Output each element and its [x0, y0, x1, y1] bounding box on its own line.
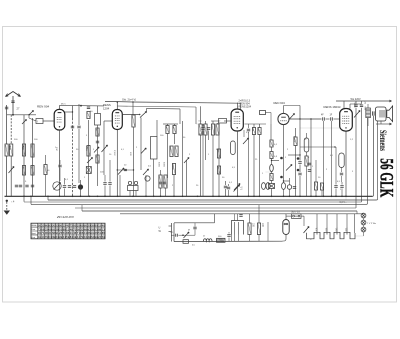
wire antenna to switch — [7, 114, 36, 116]
svg-text:5000: 5000 — [85, 146, 87, 152]
capacitor x97 — [96, 140, 99, 142]
wire h y108.5 ext — [147, 107, 181, 110]
pot tuning left — [22, 120, 27, 125]
wire tie y170 — [117, 169, 133, 171]
resistor R3 — [31, 144, 34, 157]
wire x186 down — [186, 160, 188, 196]
pot below V2 — [102, 145, 108, 152]
dial lamp 3 — [361, 227, 366, 232]
svg-text:59: 59 — [102, 235, 105, 239]
wire tie y160 — [272, 160, 280, 162]
mains plug bracket — [171, 223, 173, 242]
junction — [89, 195, 91, 197]
rail x356 — [355, 126, 357, 208]
junction — [341, 195, 343, 197]
wire top bus left segment — [105, 100, 133, 103]
IF transformer box 1 — [95, 114, 101, 126]
junction — [271, 195, 273, 197]
junction — [182, 195, 184, 197]
svg-text:Welle: Welle — [31, 225, 37, 227]
wire y104 stub — [350, 103, 362, 105]
junction — [132, 195, 134, 197]
cap x335 low — [334, 185, 337, 187]
cap mains — [175, 234, 177, 237]
resistor R 500 — [22, 144, 25, 156]
junction — [283, 195, 285, 197]
bus line 6 — [82, 210, 357, 212]
rail x377.5 — [377, 121, 379, 200]
wire V3 grid left — [224, 120, 231, 122]
cap row b — [68, 185, 71, 187]
wire transformer bottom — [380, 121, 382, 125]
tube V4 REN 904 — [278, 113, 289, 124]
cap cluster x302 y163 — [308, 162, 311, 164]
svg-text:5000: 5000 — [168, 147, 170, 153]
resistor left lower1 — [22, 166, 25, 176]
capacitor 100 b — [173, 126, 176, 134]
transformer tap risers — [316, 214, 318, 228]
wire x24 down — [23, 115, 25, 197]
wire x271 — [270, 124, 272, 140]
bus line 2 — [48, 199, 377, 201]
wire x271 low — [271, 147, 273, 152]
bus line 7 short — [120, 213, 364, 215]
output transformer — [376, 107, 387, 121]
switch wave band — [29, 111, 34, 115]
wire V5 cathode — [345, 131, 347, 196]
wire x174 low — [173, 175, 175, 197]
switch mains — [184, 232, 190, 238]
node antenna junction — [12, 114, 14, 116]
wire V2 top to bus — [116, 102, 118, 110]
wire speaker left — [300, 127, 340, 129]
wire V1 cathode down — [59, 130, 61, 196]
junction — [212, 195, 214, 197]
svg-text:500: 500 — [21, 146, 24, 151]
felt box V4 — [260, 111, 266, 115]
felt box mid — [219, 119, 227, 124]
tube V2 RENS 1204 — [112, 110, 122, 130]
bus line 4 — [31, 204, 367, 206]
wire x311 down — [310, 119, 312, 196]
top bus gitt line — [133, 102, 241, 103]
IF coil box 2 — [151, 137, 158, 160]
resistor 5000 pair — [170, 146, 173, 157]
wire trafo right end — [352, 232, 354, 234]
pot x141 — [141, 148, 146, 154]
oval x283 low — [282, 183, 286, 190]
wire mains top — [174, 222, 215, 224]
coil loop under V3 — [231, 141, 236, 155]
switch low x237 — [234, 184, 240, 191]
electrolytic 100 a — [248, 223, 251, 235]
cap row a — [63, 185, 66, 187]
capacitor 500 a — [252, 128, 255, 135]
pot x236 — [234, 185, 240, 192]
switch V5 top — [354, 111, 360, 118]
pot V4 — [286, 165, 292, 171]
junction — [72, 195, 74, 197]
svg-text:Spst: Spst — [31, 232, 36, 235]
junction — [315, 195, 317, 197]
resistor x321 low — [320, 183, 323, 190]
resistor 30000 — [172, 164, 175, 175]
wire x133 down — [132, 103, 134, 115]
cap before selector — [227, 234, 230, 236]
pot x145 — [143, 169, 149, 175]
svg-text:5000: 5000 — [353, 103, 355, 109]
fuse box — [292, 214, 302, 219]
cap x248 — [247, 128, 250, 130]
wire mains bottom — [174, 240, 283, 242]
electrolytic 100 b — [257, 223, 260, 235]
rail x373.5 — [373, 116, 375, 196]
bus right wraps — [376, 199, 378, 201]
junction — [104, 195, 106, 197]
wire x254 x259 leads — [253, 124, 255, 128]
resistor x316 — [314, 182, 317, 190]
wire V3 cathode down — [237, 131, 239, 196]
junction — [23, 195, 25, 197]
resistor stack 1 — [270, 140, 273, 147]
cap x72.5 — [71, 125, 74, 127]
cap 5000 b — [360, 104, 363, 106]
junction — [289, 195, 291, 197]
wire V2 plate right — [122, 114, 139, 116]
wire x11 down — [10, 115, 12, 144]
wire x72.5 down — [72, 106, 74, 119]
dial lamp 2 — [361, 220, 366, 225]
wire V2 cathode down — [116, 130, 118, 197]
capacitor 500 b — [258, 128, 261, 135]
junction — [335, 195, 337, 197]
svg-text:100: 100 — [8, 146, 11, 151]
bus corner left a — [30, 196, 32, 204]
volume potentiometer — [53, 182, 61, 190]
wire x182.5 down — [182, 121, 184, 196]
svg-text:50000: 50000 — [292, 136, 294, 143]
rail x367.5 — [367, 118, 369, 204]
cap x294 low — [293, 186, 296, 188]
tube V1 REN 904 — [54, 109, 65, 130]
cap left top — [5, 106, 8, 108]
junction — [299, 195, 301, 197]
trimmer pair x130 — [128, 181, 131, 184]
junction — [97, 195, 99, 197]
output loop — [339, 153, 344, 168]
cap small selector — [239, 214, 242, 216]
speaker bottom line — [376, 123, 392, 125]
cap cluster left of V3 — [201, 127, 204, 129]
ovals dial x263 — [262, 183, 266, 190]
trimmer row left — [15, 184, 18, 186]
wire V4 plate right — [289, 118, 321, 120]
wire V1 plate right — [65, 111, 73, 113]
wire caps series — [326, 118, 330, 120]
junction — [160, 195, 162, 197]
bus line 5 — [75, 207, 356, 209]
svg-text:Sich. 0,8: Sich. 0,8 — [291, 212, 301, 214]
resistor anode load 2 — [204, 124, 207, 135]
bus wrap x359 — [359, 199, 361, 201]
junction — [197, 195, 199, 197]
wire x32.5 down — [32, 118, 34, 196]
bus line 3 — [24, 201, 362, 203]
svg-text:RENS1204: RENS1204 — [239, 106, 252, 109]
junction — [80, 195, 82, 197]
wire h x163-178 y124 — [163, 123, 178, 125]
cap 5000 a — [354, 104, 357, 106]
wire V4 down — [283, 125, 285, 181]
switch mid left — [87, 158, 93, 164]
tube V3 RENS 1204 det — [231, 109, 243, 131]
resistor x165 low — [164, 175, 167, 188]
coil box input — [36, 119, 43, 124]
svg-text:Gitt. 2(+4 V): Gitt. 2(+4 V) — [122, 98, 136, 102]
junction — [248, 195, 250, 197]
resistor x97 a — [96, 128, 99, 136]
wire V3 top — [237, 103, 239, 109]
wire tie y172 — [266, 171, 272, 173]
wire switch to trafo — [310, 238, 312, 240]
cap x79 — [77, 125, 80, 127]
resistor stack 3 — [270, 174, 273, 181]
table alignment data — [31, 223, 105, 239]
cap x342 low — [340, 185, 343, 187]
wire x331 down — [331, 121, 333, 196]
junction — [145, 195, 147, 197]
power transformer primary — [307, 232, 356, 239]
junction — [47, 195, 49, 197]
svg-text:Drst: Drst — [31, 228, 35, 231]
wire V2 grid left — [104, 120, 112, 122]
box X x89 — [86, 167, 91, 174]
junction — [345, 195, 347, 197]
output capacitor — [372, 111, 374, 115]
wire fuse — [286, 215, 292, 217]
capacitor 1F — [330, 117, 332, 120]
junction blobs detector — [280, 157, 283, 160]
svg-text:7 V 2 Wn: 7 V 2 Wn — [367, 223, 377, 225]
junction — [173, 195, 175, 197]
svg-text:REN 904: REN 904 — [274, 101, 286, 105]
wire V1 anode up — [59, 105, 61, 109]
tube V5 RENS 1823d — [340, 109, 353, 132]
svg-text:Dr: Dr — [203, 236, 205, 238]
junction — [117, 195, 119, 197]
pot left lower — [9, 167, 15, 174]
svg-text:6,3 V∼: 6,3 V∼ — [340, 202, 347, 204]
cap right pair — [298, 161, 301, 163]
wire x300 up — [299, 119, 301, 155]
cap x225 — [224, 185, 227, 187]
capacitor 100 a — [166, 126, 169, 134]
wire left column — [6, 105, 8, 144]
switch V4 right — [289, 114, 295, 121]
junction — [237, 195, 239, 197]
wire tie y155 — [288, 154, 300, 156]
wire h y147 — [300, 146, 335, 148]
svg-text:Siemens: Siemens — [378, 130, 388, 151]
svg-text:Krst: Krst — [31, 236, 35, 239]
cap row c — [73, 185, 76, 187]
switch V3 area — [243, 138, 249, 144]
resistor left lower2 — [31, 166, 34, 176]
field coil — [366, 108, 371, 118]
resistor anode load 1 — [199, 124, 202, 135]
resistor stack 2 — [270, 152, 273, 159]
box with x — [269, 184, 275, 189]
resistor mains — [217, 238, 226, 242]
resistor x295 — [294, 137, 297, 146]
ground symbol — [6, 200, 8, 202]
capacitor antenna series — [11, 100, 14, 102]
resistor x89 low — [87, 146, 90, 157]
transformer taps — [316, 228, 318, 235]
wire x141 down — [140, 118, 142, 171]
svg-text:M: M — [188, 230, 190, 232]
resistor x97 b — [96, 155, 99, 163]
wire V5 anode up — [343, 101, 345, 109]
junction — [253, 195, 255, 197]
wire tie y181 — [284, 180, 290, 182]
loudspeaker cone — [387, 106, 393, 122]
second bus line — [117, 106, 196, 107]
pot x120 — [118, 168, 124, 175]
rectifier tube RGN 354 — [283, 220, 289, 235]
wire V4 top — [283, 106, 285, 114]
wire h y124 det — [245, 123, 267, 125]
rail x361.5 — [361, 126, 363, 202]
svg-text:5000: 5000 — [157, 162, 159, 168]
svg-text:30000: 30000 — [171, 164, 173, 171]
svg-text:Ws 220V: Ws 220V — [351, 98, 361, 101]
junction — [259, 195, 261, 197]
junction — [323, 195, 325, 197]
mains switch — [304, 227, 310, 234]
resistor x160 low — [159, 175, 162, 188]
wire x146.5 right — [146, 108, 148, 111]
svg-text:56 GLK: 56 GLK — [376, 158, 397, 197]
resistor x213 — [211, 124, 214, 135]
circle x289 low — [287, 185, 291, 189]
lamp rail — [363, 213, 365, 215]
junction — [331, 195, 333, 197]
resistor x45 — [44, 165, 47, 175]
junction — [59, 195, 61, 197]
ground bus main — [5, 195, 373, 197]
cap x228 — [227, 186, 230, 188]
oval component — [270, 164, 274, 171]
svg-text:1204: 1204 — [103, 106, 110, 110]
wire box to tube V1 grid — [43, 120, 54, 122]
box mains small — [183, 240, 189, 244]
junction — [218, 195, 220, 197]
svg-text:ZF=128 kHz: ZF=128 kHz — [56, 215, 74, 219]
electrolytic dot — [78, 184, 83, 189]
antenna — [12, 96, 14, 115]
svg-text:2,5 M: 2,5 M — [113, 150, 115, 156]
wire x219 down — [218, 123, 220, 196]
junction — [30, 195, 32, 197]
capacitor 4F — [322, 117, 324, 120]
switch x97 — [94, 147, 99, 153]
wire x323 down — [323, 121, 325, 196]
switch after V2 — [140, 112, 147, 118]
svg-text:REN 904: REN 904 — [37, 105, 50, 109]
voltage selector — [232, 221, 244, 235]
coil loop x306 — [304, 138, 309, 152]
dial lamp 1 — [361, 213, 366, 218]
resistor x87.5 upper — [87, 106, 90, 108]
junction — [153, 195, 155, 197]
cap x60 — [58, 164, 61, 166]
choke coil — [203, 239, 212, 242]
cap x160 low — [159, 181, 162, 183]
cap x105 pair — [103, 182, 106, 184]
resistor R 100 — [10, 144, 13, 156]
junction — [310, 195, 312, 197]
svg-text:5000: 5000 — [162, 162, 164, 168]
wire x157 via box — [156, 120, 158, 137]
top line Ws220 — [336, 100, 392, 102]
svg-text:RENS 1823d: RENS 1823d — [324, 105, 341, 109]
